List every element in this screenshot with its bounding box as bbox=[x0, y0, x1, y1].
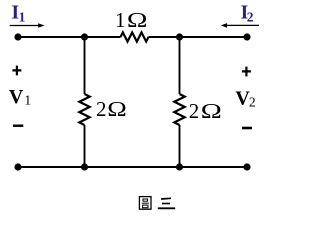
node junction top-right bbox=[176, 33, 183, 40]
svg-text:1: 1 bbox=[24, 93, 31, 108]
svg-text:V: V bbox=[9, 86, 24, 108]
wire right vertical lower stub bbox=[179, 125, 181, 167]
node terminal top-right bbox=[243, 33, 250, 40]
svg-text:Ω: Ω bbox=[127, 9, 148, 32]
wire left vertical lower stub bbox=[84, 125, 86, 167]
node junction bottom-left bbox=[81, 163, 88, 170]
current arrow I2 (points left) bbox=[227, 24, 260, 26]
wire top-right segment bbox=[149, 36, 248, 38]
svg-text:1: 1 bbox=[115, 8, 126, 32]
wire bottom bbox=[18, 166, 247, 168]
node terminal bottom-left bbox=[14, 163, 21, 170]
svg-text:2: 2 bbox=[96, 97, 107, 121]
caption character TU (figure) bbox=[139, 197, 151, 210]
svg-text:2: 2 bbox=[189, 99, 200, 123]
plus sign (port 2) bbox=[242, 67, 251, 77]
wire top-left segment bbox=[18, 36, 121, 38]
svg-text:2: 2 bbox=[249, 95, 256, 110]
node junction bottom-right bbox=[176, 163, 183, 170]
svg-text:Ω: Ω bbox=[201, 100, 222, 123]
svg-text:2: 2 bbox=[247, 9, 254, 24]
current arrow I1 (points right) bbox=[10, 25, 39, 27]
caption character SAN (three) bbox=[158, 198, 175, 208]
svg-text:1: 1 bbox=[19, 10, 26, 25]
node terminal bottom-right bbox=[243, 163, 250, 170]
minus sign (port 1) bbox=[13, 124, 23, 126]
wire left vertical upper stub bbox=[84, 37, 86, 94]
resistor R3 2ohm (right vertical zigzag) bbox=[174, 94, 184, 125]
minus sign (port 2) bbox=[242, 127, 252, 130]
node junction top-left bbox=[81, 33, 88, 40]
wire right vertical upper stub bbox=[179, 37, 181, 94]
svg-text:Ω: Ω bbox=[107, 99, 127, 122]
node terminal top-left bbox=[14, 33, 21, 40]
plus sign (port 1) bbox=[12, 66, 21, 76]
resistor R2 2ohm (left vertical zigzag) bbox=[79, 94, 89, 125]
resistor R1 1ohm (top horizontal zigzag) bbox=[121, 32, 149, 41]
